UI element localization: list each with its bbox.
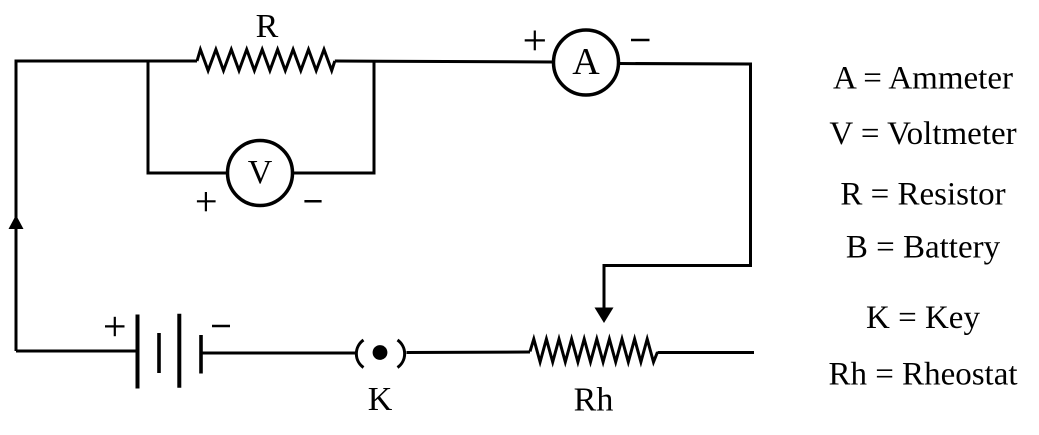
svg-text:R: R	[256, 8, 279, 45]
svg-text:R = Resistor: R = Resistor	[840, 177, 1005, 213]
label - (ammeter negative terminal)	[631, 39, 650, 42]
wire from voltmeter right	[292, 172, 376, 175]
wire resistor to ammeter	[335, 61, 554, 62]
ammeter A circle	[554, 30, 619, 95]
wire left vertical	[15, 61, 18, 351]
key K plug dot	[373, 345, 388, 360]
svg-text:A = Ammeter: A = Ammeter	[833, 61, 1013, 97]
label - (voltmeter negative terminal)	[304, 200, 321, 203]
label + (ammeter positive terminal)	[525, 31, 545, 51]
current direction arrow (up) on left wire	[9, 215, 24, 229]
svg-text:Rh = Rheostat: Rh = Rheostat	[828, 357, 1017, 393]
wire voltmeter branch right vertical	[373, 61, 376, 173]
voltmeter V circle	[228, 141, 293, 206]
svg-text:V: V	[248, 154, 273, 191]
wire ammeter to right corner, down, and left to slider	[604, 64, 751, 310]
wire voltmeter branch left vertical	[147, 61, 150, 173]
key K left contact arc	[356, 340, 363, 368]
label + (battery positive)	[105, 317, 125, 336]
svg-text:Rh: Rh	[574, 382, 614, 419]
svg-text:K: K	[368, 381, 393, 418]
resistor R zigzag	[197, 50, 335, 71]
wire key to rheostat	[407, 351, 531, 355]
key K right contact arc	[398, 340, 405, 368]
wire bottom left (corner to battery)	[16, 350, 138, 353]
svg-text:B = Battery: B = Battery	[846, 230, 1001, 266]
label - (battery negative)	[212, 325, 230, 328]
battery B plate short	[157, 333, 161, 373]
battery B plate long (positive)	[136, 315, 140, 389]
svg-text:A: A	[572, 41, 600, 83]
wire rheostat to right end	[658, 351, 755, 354]
battery B plate short (negative)	[199, 335, 203, 374]
rheostat Rh zigzag	[530, 339, 658, 362]
rheostat slider arrow (down)	[595, 308, 614, 324]
svg-text:V = Voltmeter: V = Voltmeter	[829, 116, 1016, 152]
wire top horizontal (left corner to resistor)	[15, 60, 198, 63]
battery B plate long	[177, 314, 181, 388]
wire to voltmeter left	[147, 172, 229, 175]
wire battery to key	[201, 352, 355, 355]
label + (voltmeter positive terminal)	[197, 192, 216, 211]
svg-text:K = Key: K = Key	[866, 300, 980, 336]
